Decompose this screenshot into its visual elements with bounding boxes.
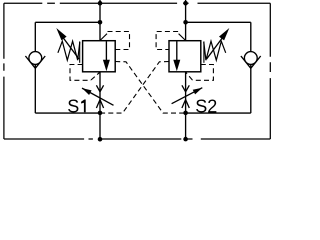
node dot left check top xyxy=(98,20,103,25)
adjustment arrow S2 xyxy=(172,88,203,104)
wire: left main line below valve to bottom border xyxy=(99,72,101,139)
check valve CV2 (right) xyxy=(241,52,261,69)
enclosure boundary bottom xyxy=(4,138,270,140)
spring of U1 xyxy=(58,41,80,63)
label S1 xyxy=(67,96,79,116)
pilot tap diagonal U2 (top) xyxy=(179,34,186,41)
node dot V2 at border xyxy=(183,1,188,6)
spring of U2 xyxy=(204,41,226,63)
wire: right check branch vertical lower xyxy=(250,64,252,113)
node dot left bottom junction xyxy=(98,111,103,116)
adjustment arrow S1 xyxy=(82,88,114,105)
enclosure boundary (dashed subplate border) top xyxy=(4,3,270,139)
wire: right check branch top horizontal xyxy=(186,21,251,23)
node dot right check top xyxy=(183,20,188,25)
wire: left check branch bottom horizontal xyxy=(35,112,100,114)
svg-text:S: S xyxy=(67,96,79,116)
wire: port V1 vertical line (top left) xyxy=(99,0,101,41)
pilot piston dashed box U1 xyxy=(70,65,100,81)
adjustment arrow of U2 spring xyxy=(207,28,230,59)
wire: right check branch bottom horizontal xyxy=(186,112,251,114)
pilot piston dashed box U2 xyxy=(186,65,214,81)
internal pilot dashed loop U1 xyxy=(108,32,130,50)
external pilot line of U1 (dashed, crossing to right line) xyxy=(115,62,185,114)
U1 internal flow line with arrow (down) xyxy=(103,41,110,71)
node dot C2 at border xyxy=(183,137,188,142)
label S2 xyxy=(195,97,217,117)
node dot C1 at border xyxy=(98,137,103,142)
wire: right main line below valve to bottom border xyxy=(185,72,187,139)
throttle chevrons on left line (restrictor) xyxy=(96,85,103,108)
check valve CV1 (left) xyxy=(25,52,45,69)
pilot tap diagonal U1 (top) xyxy=(100,34,107,41)
wire: port V2 vertical line (top right) xyxy=(185,0,187,41)
external pilot line of U2 (dashed, crossing to left line) xyxy=(100,62,169,114)
adjustment arrow of U1 spring xyxy=(56,28,79,59)
wire: left check branch vertical lower xyxy=(34,64,36,113)
counterbalance valve body U1 (left square envelope) xyxy=(83,41,116,72)
enclosure boundary left xyxy=(3,3,5,139)
counterbalance valve body U2 (right square envelope) xyxy=(169,41,201,72)
throttle chevrons on right line (restrictor) xyxy=(182,85,189,108)
U2 internal flow line with arrow (down) xyxy=(173,41,180,71)
wire: left check branch vertical upper xyxy=(34,22,36,52)
node dot right bottom junction xyxy=(183,111,188,116)
internal pilot dashed loop U2 xyxy=(156,32,178,50)
wire: right check branch vertical upper xyxy=(250,22,252,52)
wire: left check branch top horizontal xyxy=(35,21,100,23)
enclosure boundary right xyxy=(269,3,271,139)
svg-text:S2: S2 xyxy=(195,97,217,117)
node dot V1 at border xyxy=(98,1,103,6)
